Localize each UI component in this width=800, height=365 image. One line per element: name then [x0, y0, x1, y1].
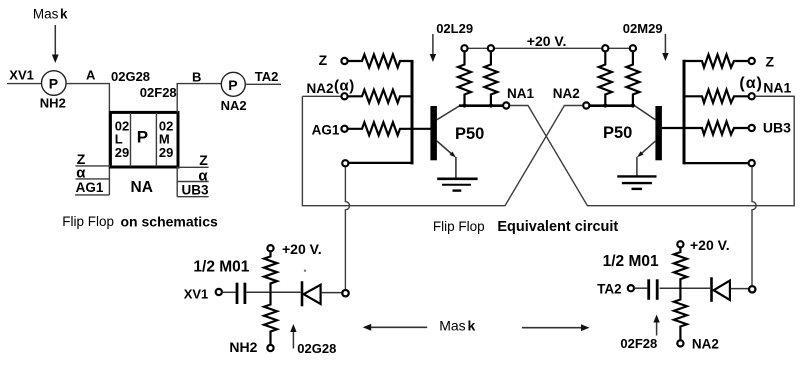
collector node wire left	[459, 104, 503, 107]
arrow Mask right	[522, 324, 590, 331]
ground (left transistor)	[437, 179, 477, 191]
svg-text:02F28: 02F28	[140, 85, 177, 100]
svg-text:NA1: NA1	[763, 79, 791, 95]
terminal NA1 input	[749, 93, 755, 99]
pulse source P (NA2)	[221, 72, 245, 96]
svg-text:A: A	[86, 68, 96, 83]
box divider right	[155, 113, 157, 167]
box text 02 M 29 (right cell)	[159, 118, 173, 160]
svg-text:NA2: NA2	[307, 81, 334, 96]
terminal NA2	[583, 102, 589, 108]
terminal +20 V. left M01	[267, 245, 273, 251]
svg-text:29: 29	[159, 145, 173, 160]
terminal +20 rail right pair	[602, 45, 636, 51]
junction dots left	[462, 103, 493, 107]
svg-text:Equivalent circuit: Equivalent circuit	[497, 219, 618, 235]
diode left M01 triangle	[304, 285, 321, 304]
svg-text:AG1: AG1	[76, 180, 104, 195]
wire NA2 cross-net	[302, 96, 582, 205]
terminal TA2	[628, 285, 634, 291]
svg-text:P: P	[228, 77, 237, 93]
resistor AG1	[348, 122, 413, 135]
transistor Q1 emitter line	[437, 141, 454, 156]
terminal row4 left	[342, 160, 348, 166]
svg-text:B: B	[192, 70, 201, 85]
resistor UB3	[684, 122, 749, 135]
svg-text:XV1: XV1	[184, 286, 209, 301]
diode right M01 cathode bar	[710, 277, 713, 302]
resistor upper right M01	[674, 248, 687, 288]
svg-text:1/2 M01: 1/2 M01	[603, 253, 659, 270]
label Mask (top-left)	[33, 6, 68, 21]
svg-text:+20 V.: +20 V.	[690, 237, 730, 253]
arrow Mask left	[363, 324, 428, 331]
svg-text:+20 V.: +20 V.	[282, 241, 322, 257]
pin line Z (left)	[76, 165, 111, 167]
svg-text:P: P	[137, 127, 148, 146]
svg-text:k: k	[60, 6, 68, 21]
wire row4 to bus	[349, 162, 414, 164]
svg-text:02G28: 02G28	[297, 341, 336, 356]
wire NA1 input to cross-net	[755, 95, 793, 97]
svg-text:M: M	[159, 131, 170, 146]
diode left M01 cathode bar	[301, 281, 304, 306]
svg-text:NA2: NA2	[692, 337, 719, 352]
svg-text:(α): (α)	[739, 75, 763, 92]
arrow 02L29 down	[430, 34, 436, 62]
pin line alpha (left)	[76, 178, 110, 180]
label NA2(alpha)	[307, 77, 355, 96]
svg-text:NA2: NA2	[553, 86, 580, 101]
resistor lower right M01	[674, 288, 687, 340]
svg-text:Z: Z	[766, 53, 775, 69]
resistor NA1 input	[684, 90, 749, 103]
svg-text:AG1: AG1	[312, 122, 340, 137]
terminal AG1	[341, 126, 347, 132]
wire diode to output terminal	[321, 292, 342, 294]
wire from cross-net to NA2 input	[302, 95, 341, 97]
resistor NA2 input	[348, 90, 413, 103]
label Mask (bottom)	[439, 318, 475, 334]
wire row4 to bus right	[684, 162, 748, 164]
junction dots right	[603, 103, 635, 107]
transistor Q2 base bar	[655, 106, 662, 160]
+20 V. rail wire	[465, 47, 633, 49]
svg-text:Flip Flop: Flip Flop	[62, 214, 114, 229]
terminal Z left	[341, 58, 347, 64]
transistor Q1 collector line	[437, 106, 460, 120]
svg-text:29: 29	[115, 145, 129, 160]
resistor lower left M01	[264, 292, 277, 345]
arrow Mask down	[52, 25, 59, 63]
svg-text:k: k	[468, 318, 476, 334]
svg-text:TA2: TA2	[597, 281, 622, 296]
svg-text:L: L	[115, 131, 123, 146]
svg-text:TA2: TA2	[255, 69, 279, 84]
arrow 02F28 up	[653, 315, 659, 336]
svg-text:NA2: NA2	[221, 98, 247, 113]
terminal Z right	[749, 58, 755, 64]
caption: Flip Flop on schematics	[62, 213, 218, 229]
svg-text:Z: Z	[199, 152, 208, 168]
svg-text:P50: P50	[455, 125, 484, 143]
terminal NA1	[503, 102, 509, 108]
capacitor right M01	[649, 279, 658, 300]
transistor Q1 base bar	[430, 106, 437, 160]
box text 02 L 29 (left cell)	[115, 118, 129, 160]
base bus left	[411, 60, 414, 164]
terminal output left M01	[342, 290, 348, 296]
svg-text:Flip Flop: Flip Flop	[433, 219, 485, 234]
svg-text:NH2: NH2	[40, 95, 66, 110]
wire emitter to ground	[455, 157, 457, 179]
resistor upper left M01	[264, 252, 277, 292]
pullup resistor 2 left	[484, 52, 497, 106]
caption: Flip Flop Equivalent circuit	[433, 219, 619, 235]
wire diode to output terminal right	[730, 288, 748, 290]
base bus right	[683, 60, 686, 165]
wire A (P circle to box, turns down)	[66, 84, 109, 195]
svg-text:02L29: 02L29	[436, 21, 473, 36]
stray dot artifact	[304, 270, 306, 272]
wire XV1 to P circle	[7, 83, 42, 85]
transistor Q2 emitter line	[640, 141, 656, 155]
svg-text:NA: NA	[131, 179, 153, 196]
wire B (box to P circle NA2)	[177, 84, 221, 113]
transistor Q1 emitter arrowhead	[450, 152, 456, 158]
svg-text:XV1: XV1	[9, 68, 34, 83]
svg-text:02M29: 02M29	[623, 21, 663, 36]
wire TA2	[245, 83, 281, 85]
terminal UB3	[749, 125, 755, 131]
wire left output down (with hop)	[345, 167, 349, 290]
collector node wire right	[590, 104, 634, 107]
svg-text:P50: P50	[603, 124, 632, 142]
terminal NH2	[267, 345, 273, 351]
pin line UB3 (right)	[177, 196, 208, 198]
resistor Z left	[348, 55, 413, 68]
transistor Q2 collector line	[635, 106, 656, 120]
pin line AG1 (left)	[75, 194, 109, 196]
pin line alpha (right)	[177, 181, 208, 183]
terminal +20 V. right M01	[677, 241, 683, 247]
svg-text:UB3: UB3	[763, 120, 791, 136]
arrow 02M29 down	[662, 34, 668, 61]
terminal XV1	[216, 289, 222, 295]
wire NA1 cross-net	[510, 96, 794, 205]
wire capacitor to diode right	[660, 287, 710, 289]
wire bus to base right	[662, 127, 684, 129]
pullup resistor 1 left	[458, 52, 471, 106]
svg-text:02G28: 02G28	[111, 69, 150, 84]
capacitor left M01	[237, 283, 245, 304]
svg-text:+20 V.: +20 V.	[527, 33, 567, 49]
terminal NA2 (M01)	[677, 340, 683, 346]
ground (right transistor)	[617, 176, 656, 189]
svg-text:UB3: UB3	[182, 183, 209, 198]
box divider left	[130, 113, 132, 167]
pin line Z (right)	[177, 166, 208, 168]
svg-text:02F28: 02F28	[620, 336, 657, 351]
svg-text:1/2 M01: 1/2 M01	[193, 258, 249, 275]
wire capacitor to diode	[246, 291, 300, 293]
wire emitter to ground right	[636, 157, 638, 177]
arrow 02G28 up	[290, 324, 296, 349]
terminal row4 right	[749, 160, 755, 166]
pin connector vertical right of box	[176, 167, 178, 197]
svg-text:NH2: NH2	[229, 339, 257, 355]
terminal NA2 input	[341, 93, 347, 99]
pullup resistor 2 right	[626, 52, 639, 106]
transistor Q2 emitter arrowhead	[637, 151, 643, 157]
diode right M01 triangle	[714, 281, 730, 300]
pullup resistor 1 right	[599, 52, 612, 106]
wire bus to base	[412, 128, 431, 130]
wire TA2 to capacitor	[635, 287, 648, 289]
svg-text:Mas: Mas	[439, 318, 465, 334]
svg-text:P: P	[49, 76, 58, 92]
pulse source P (NH2)	[42, 71, 67, 96]
flip-flop box NA outline	[110, 112, 178, 167]
wire XV1 to capacitor	[222, 291, 236, 293]
svg-text:(α): (α)	[334, 77, 355, 94]
svg-text:NA1: NA1	[507, 86, 534, 101]
terminal output right M01	[749, 286, 755, 292]
svg-text:Z: Z	[319, 52, 328, 68]
svg-text:on schematics: on schematics	[121, 213, 218, 229]
svg-text:Mas: Mas	[33, 6, 59, 21]
wire right output down (with hop)	[752, 167, 756, 286]
resistor Z right	[684, 55, 749, 68]
label (alpha)NA1	[739, 75, 791, 95]
terminal +20 rail left pair	[461, 45, 494, 51]
